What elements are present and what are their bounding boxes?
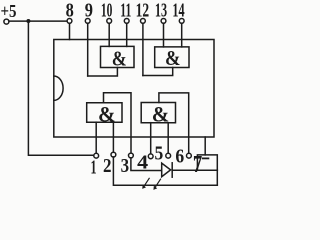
pin 7 label (193, 152, 202, 178)
svg-text:&: & (165, 46, 181, 70)
wire pin 12 lead (142, 23, 144, 75)
terminal pin 9 (85, 19, 90, 24)
terminal pin 1 (94, 153, 99, 158)
wire pin 10 lead (108, 23, 110, 46)
wire G3 output over the top to pin 3 (104, 93, 132, 153)
wire +5 rail to pin 8 (9, 20, 67, 22)
svg-text:2: 2 (103, 155, 112, 177)
pin 10 label (101, 0, 113, 22)
wire G2 output to pin 12 (143, 68, 173, 76)
wire pin 11 lead (126, 23, 128, 46)
svg-text:1: 1 (91, 156, 97, 178)
resistor R box (197, 155, 217, 170)
terminal pin 11 (124, 19, 129, 24)
svg-text:5: 5 (155, 143, 164, 165)
gate G3 symbol (98, 101, 116, 126)
svg-text:7: 7 (193, 152, 202, 178)
wire G4 input pin 5 (167, 123, 169, 154)
pin 2 label (103, 155, 112, 177)
gate G4 symbol (152, 101, 170, 126)
LED light arrow 1 (144, 178, 149, 186)
wire pin 2 to bottom rail (113, 157, 217, 185)
terminal +5 (4, 19, 9, 24)
gate G3 box (87, 103, 122, 123)
wire G3 input pin 1 (95, 122, 97, 153)
pin 4 label (137, 152, 148, 174)
terminal pin 3 (129, 153, 134, 158)
diode VD LED triangle (162, 163, 171, 177)
LED light arrow 2 (155, 179, 160, 187)
IC notch (54, 76, 63, 100)
wire resistor to bottom rail (216, 170, 218, 185)
wire pin 3 to LED anode (131, 158, 162, 171)
pin 11 label (120, 0, 131, 22)
wire G1 output to pin 9 (88, 68, 118, 77)
terminal pin 5 (166, 153, 171, 158)
dash mark in resistor (203, 157, 209, 159)
pin 14 label (172, 0, 184, 22)
gate G4 box (141, 103, 175, 123)
gate G2 box (155, 47, 189, 68)
terminal pin 12 (141, 19, 146, 24)
wire G4 input pin 4 (150, 123, 152, 154)
pin 9 label (85, 0, 93, 22)
terminal pin 10 (107, 19, 112, 24)
wire pin 9 lead (87, 23, 89, 76)
svg-text:&: & (152, 101, 170, 126)
pin 3 label (121, 155, 130, 177)
pin 5 label (155, 143, 164, 165)
terminal pin 8 (67, 19, 72, 24)
gate G1 box (101, 46, 135, 67)
diode VD cathode bar (171, 163, 173, 177)
svg-text:6: 6 (175, 145, 184, 167)
terminal pin 13 (161, 19, 166, 24)
pin 13 label (155, 0, 167, 22)
pin 8 label (66, 0, 74, 22)
wire pin 8 lead (69, 23, 71, 39)
terminal pin 4 (148, 154, 153, 159)
svg-text:+5: +5 (1, 1, 17, 21)
junction dot (26, 19, 30, 23)
pin 6 label (175, 145, 184, 167)
wire G3 input pin 2 (112, 122, 114, 152)
wire pin 14 lead (181, 23, 183, 47)
wire G4 output over the top to pin 6 (159, 93, 189, 153)
terminal pin 6 (187, 153, 192, 158)
wire pin 7 lead down (204, 137, 206, 155)
wire pin 13 lead (163, 23, 165, 47)
pin 1 label (91, 156, 97, 178)
node +5 label (1, 1, 17, 21)
wire +5 loop to pin 1 (28, 21, 93, 155)
wire LED cathode to resistor box (172, 169, 217, 171)
svg-text:3: 3 (121, 155, 130, 177)
IC body outline U1 (54, 40, 214, 138)
pin 12 label (136, 0, 150, 22)
svg-text:&: & (112, 47, 127, 71)
terminal pin 14 (179, 19, 184, 24)
gate G2 symbol (165, 46, 181, 70)
gate G1 symbol (112, 47, 127, 71)
terminal pin 2 (111, 152, 116, 157)
